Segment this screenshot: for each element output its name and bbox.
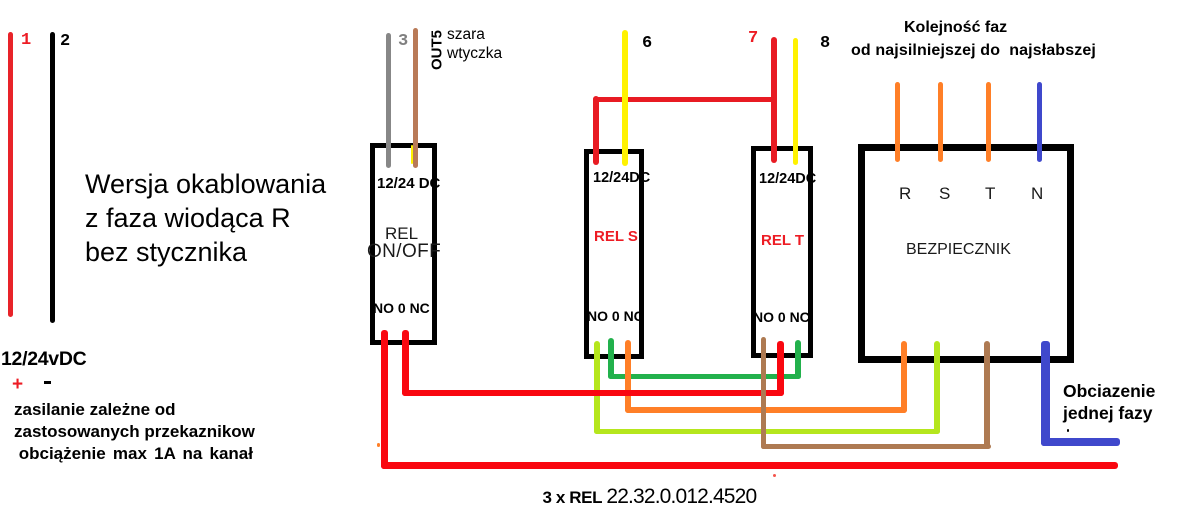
label NO 0 NC REL S [587, 308, 644, 324]
relay box REL T [751, 146, 813, 358]
label REL T [761, 232, 804, 249]
label BEZPIECZNIK [906, 241, 1011, 259]
wire orange S top pin [938, 82, 943, 162]
label 1 [21, 31, 31, 50]
label od najsilniejszej do najslabszej [851, 42, 1096, 60]
label minus [44, 381, 51, 384]
wire green horizontal REL S to REL T [608, 374, 801, 380]
label NO 0 NC box1 [373, 300, 430, 316]
wire orange R top pin [895, 82, 900, 162]
wire green REL T bottom pin vertical [795, 340, 801, 379]
label 7 [748, 29, 758, 48]
fuse box BEZPIECZNIK [858, 144, 1074, 363]
wire orange horizontal to fuse box [625, 407, 907, 413]
label plus [12, 374, 23, 396]
wire red REL S top pin vertical [593, 96, 599, 165]
label 12/24vDC [1, 348, 86, 371]
wire red NC pin of REL ON/OFF vertical [402, 330, 409, 396]
wire 3 gray vertical [386, 33, 391, 168]
label REL ON/OFF [385, 224, 418, 244]
wire red horizontal to REL T [402, 390, 784, 397]
wire brown fuse T bottom pin vertical [984, 341, 990, 449]
label 6 [642, 34, 652, 53]
label 2 [60, 32, 70, 51]
wire 7 red vertical [771, 37, 777, 163]
wire chartreuse horizontal to fuse box [594, 429, 940, 435]
title text Wersja okablowania [85, 168, 326, 269]
wire yellow sliver under OUT5 brown [411, 145, 413, 164]
label Obciazenie jednej fazy [1063, 380, 1155, 424]
wire brown horizontal to fuse box [761, 444, 991, 449]
label 12/24 DC box1 [377, 175, 440, 192]
wire red NO pin of REL ON/OFF down to long bottom line [381, 330, 388, 469]
relay box REL ON/OFF [370, 143, 437, 345]
caption 3 x REL 22.32.0.012.4520 [543, 485, 757, 509]
wire 1 red vertical [8, 32, 13, 317]
wire red long bottom horizontal [381, 462, 1118, 469]
wire green REL S 0 pin vertical [608, 338, 614, 379]
wire red REL T bottom pin vertical [777, 341, 784, 396]
node red dot artifact [377, 443, 380, 447]
label 3 [398, 32, 408, 51]
wire 2 black vertical [50, 32, 55, 323]
wire OUT5 brown vertical [413, 28, 418, 168]
wire blue horizontal [1041, 438, 1120, 446]
note zasilanie [14, 399, 255, 466]
label NO 0 NC REL T [753, 309, 810, 325]
wire 8 yellow vertical [793, 38, 798, 165]
wire blue fuse N bottom pin vertical [1041, 341, 1050, 446]
wire chartreuse REL S NO pin vertical [594, 341, 600, 434]
wire 6 yellow vertical [622, 30, 628, 166]
label ON/OFF [367, 241, 441, 263]
wire chartreuse fuse S bottom pin vertical [934, 341, 940, 434]
label R [899, 184, 911, 204]
label wtyczka [447, 45, 502, 63]
label REL S [594, 228, 638, 245]
label S [939, 184, 950, 204]
wire red horizontal link 6-7 [593, 97, 777, 103]
wire orange REL S NC pin vertical [625, 340, 631, 413]
relay box REL S [584, 149, 644, 359]
label 12/24DC REL T [759, 171, 816, 187]
label N [1031, 184, 1043, 204]
label OUT5 rotated [429, 29, 445, 70]
wire brown REL T NO pin vertical [761, 337, 766, 449]
label 12/24DC REL S [593, 170, 650, 186]
node red dot artifact below bottom line [773, 474, 776, 477]
node black dot artifact [1067, 429, 1069, 432]
label Kolejnosc faz [904, 19, 1007, 37]
label T [985, 184, 995, 204]
wire orange fuse R bottom pin vertical [901, 341, 907, 413]
label 8 [820, 34, 830, 53]
label szara [447, 26, 485, 44]
wire orange T top pin [986, 82, 991, 162]
wire blue N top pin [1037, 82, 1042, 162]
